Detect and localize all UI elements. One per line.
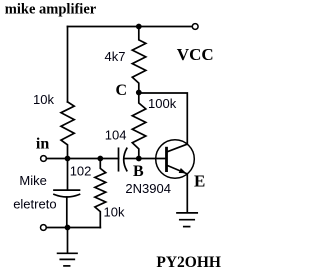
node: top junction dot [136,24,142,30]
resistor R2 4k7 [132,27,146,93]
resistor R1 10k (left) [61,102,74,159]
wire: bottom horizontal [46,227,100,229]
svg-text:PY2OHH: PY2OHH [156,254,221,271]
ground: right symbol [177,213,197,227]
node: junction dot at 10k branch [97,156,103,162]
wire: emitter to ground [186,174,188,213]
capacitor C2 104 [119,148,137,170]
resistor R3 100k feedback [132,93,146,159]
wire: base lead [139,158,167,160]
svg-text:2N3904: 2N3904 [125,181,171,196]
transistor Q1 2N3904 [156,140,195,179]
svg-text:100k: 100k [148,96,177,111]
terminal: VCC open circle [192,24,198,30]
wire: input row horizontal [46,158,118,160]
svg-text:10k: 10k [33,92,54,107]
capacitor C1 102 electret mike [54,190,80,227]
ground: left symbol [58,228,77,266]
wire: mic branch vertical [67,159,69,190]
svg-text:4k7: 4k7 [105,49,126,64]
svg-text:eletreto: eletreto [13,196,56,211]
node: bottom junction dot [65,225,71,231]
svg-text:E: E [194,172,205,191]
wire: left vertical lead [67,27,69,102]
node B junction dot [136,156,142,162]
svg-text:Mike: Mike [19,173,46,188]
svg-text:102: 102 [70,164,92,179]
svg-text:B: B [133,163,144,180]
svg-text:10k: 10k [104,205,125,220]
svg-text:mike amplifier: mike amplifier [5,2,97,18]
svg-text:in: in [36,136,49,153]
node C junction dot [136,90,142,96]
resistor R4 10k (bottom) [95,159,106,228]
node: junction dot at mic branch [65,156,71,162]
svg-text:C: C [116,82,128,99]
svg-text:104: 104 [105,128,127,143]
terminal: ground-side open circle [41,225,47,231]
svg-text:VCC: VCC [177,45,214,64]
wire: node C to collector [139,93,188,144]
terminal: in open circle [41,156,47,162]
wire: VCC rail top horizontal [68,26,193,28]
